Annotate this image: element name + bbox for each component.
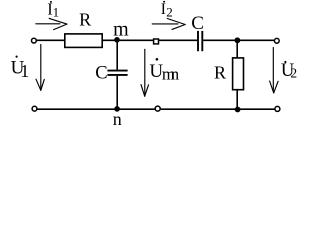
svg-text:2: 2 xyxy=(290,65,297,80)
svg-text:R: R xyxy=(79,10,91,30)
svg-text:2: 2 xyxy=(166,5,173,20)
svg-text:R: R xyxy=(214,63,226,83)
svg-text:C: C xyxy=(191,13,204,34)
svg-text:1: 1 xyxy=(20,61,29,81)
svg-text:1: 1 xyxy=(53,5,60,20)
svg-text:I: I xyxy=(161,1,166,18)
svg-text:mn: mn xyxy=(162,64,180,83)
svg-text:C: C xyxy=(95,64,107,84)
svg-text:n: n xyxy=(113,109,122,129)
svg-text:m: m xyxy=(113,19,129,41)
